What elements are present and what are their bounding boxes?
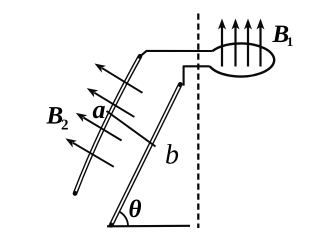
svg-text:a: a bbox=[93, 95, 106, 124]
svg-text:θ: θ bbox=[129, 196, 142, 223]
conducting rod ab across the rails bbox=[107, 111, 156, 147]
wire from left rail top to coil bbox=[140, 51, 212, 56]
B2 field arrow 1 bbox=[92, 60, 142, 93]
svg-text:b: b bbox=[165, 140, 179, 171]
B1 field arrow 3 bbox=[244, 19, 252, 67]
B2 field arrow 4 bbox=[63, 135, 113, 167]
B1 field arrow 2 bbox=[232, 19, 240, 67]
B1 field arrow 4 bbox=[257, 19, 265, 67]
svg-text:2: 2 bbox=[61, 118, 69, 134]
inclined rail (left, top rail of track) bbox=[75, 56, 140, 193]
dashed vertical reference line bbox=[197, 14, 199, 229]
inclined rail (right, bottom rail of track) bbox=[111, 84, 180, 225]
angle arc at theta bbox=[119, 212, 128, 226]
ground / horizontal base line bbox=[107, 225, 190, 228]
svg-text:1: 1 bbox=[287, 34, 294, 49]
B1 field arrow 1 bbox=[218, 19, 226, 67]
B2 field arrow 3 bbox=[74, 109, 122, 140]
coil loop (open ellipse) in field B1 bbox=[210, 43, 274, 76]
wire from coil lower-left to right rail top bbox=[184, 66, 210, 85]
B2 field arrow 2 bbox=[85, 85, 135, 117]
